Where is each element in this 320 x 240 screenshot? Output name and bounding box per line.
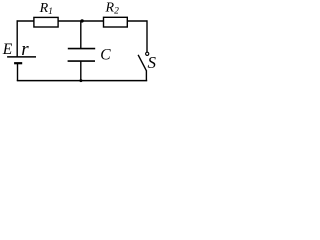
- node junction dot top: [80, 19, 83, 22]
- svg-text:R1: R1: [39, 1, 53, 17]
- battery E long plate: [7, 56, 36, 58]
- wire left side lower: [17, 64, 19, 82]
- svg-text:R2: R2: [105, 0, 120, 16]
- wire right side upper: [146, 20, 148, 52]
- wire bottom rail: [17, 80, 147, 82]
- wire right side lower: [145, 70, 147, 81]
- wire top rail: [17, 20, 148, 22]
- battery E short plate: [14, 62, 22, 64]
- wire left side upper: [16, 20, 18, 56]
- resistor R1: [34, 17, 58, 27]
- wire capacitor branch lower: [80, 61, 82, 80]
- wire capacitor branch upper: [80, 20, 82, 48]
- capacitor C top plate: [68, 48, 95, 50]
- resistor R2: [104, 17, 128, 27]
- svg-text:E: E: [2, 41, 13, 58]
- svg-text:C: C: [100, 46, 111, 63]
- node junction dot bottom: [79, 79, 82, 82]
- switch S contact circle: [146, 52, 149, 55]
- capacitor C bottom plate: [68, 60, 95, 62]
- svg-text:S: S: [148, 53, 157, 72]
- switch S lever: [138, 55, 146, 71]
- svg-text:r: r: [21, 39, 29, 60]
